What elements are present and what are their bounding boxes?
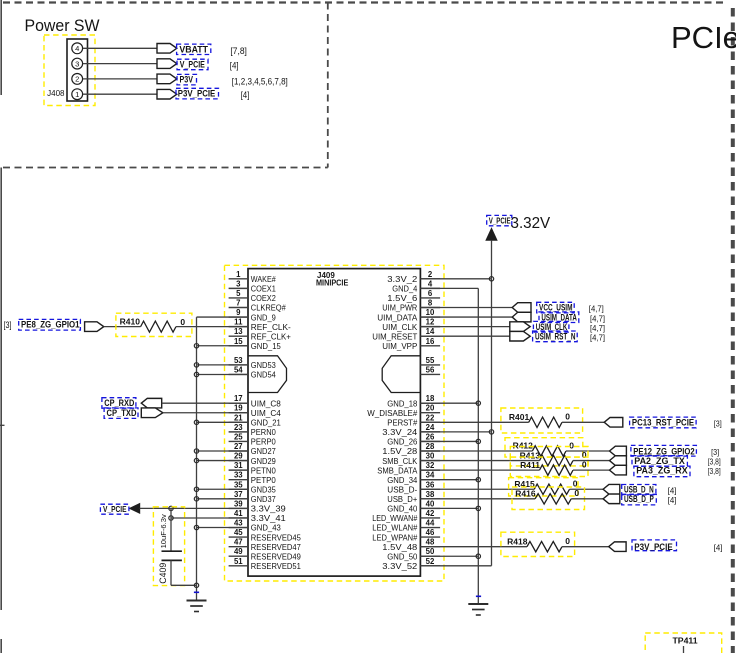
svg-text:UIM_DATA: UIM_DATA (377, 312, 417, 322)
junction GND_26 / right GND bus (476, 439, 480, 443)
title PCIe (671, 20, 736, 55)
wire GND_9 to left GND bus (197, 316, 249, 318)
pin 53 GND53 (229, 356, 276, 370)
pin 44 LED_WLAN# (372, 519, 440, 533)
svg-text:2: 2 (75, 75, 79, 84)
junction GND_34 / right GND bus (476, 478, 480, 482)
svg-text:VBATT: VBATT (179, 45, 208, 55)
sheet border top (3, 1, 727, 3)
svg-text:GND_34: GND_34 (387, 475, 417, 485)
svg-text:1.5V_28: 1.5V_28 (382, 446, 417, 456)
junction C409 / pin41 wire (169, 516, 173, 520)
svg-text:3.3V_39: 3.3V_39 (251, 504, 286, 514)
pin 12 UIM_CLK (382, 318, 440, 332)
title Power SW (25, 16, 100, 35)
wire PE8 flag to R410 (104, 326, 141, 328)
svg-text:47: 47 (234, 538, 243, 547)
connector J408 pin 3 (72, 58, 83, 69)
pin 9 GND_9 (229, 308, 276, 322)
pin 51 RESERVED51 (229, 557, 301, 571)
svg-text:PERP0: PERP0 (251, 437, 276, 447)
svg-text:18: 18 (426, 394, 435, 403)
wire GND37 to left GND bus (197, 498, 249, 500)
wire R416 to USB_D_P flag (571, 498, 603, 500)
net label V_PCIE (top) (487, 215, 512, 225)
svg-text:30: 30 (426, 452, 435, 461)
svg-text:53: 53 (234, 356, 243, 365)
svg-text:34: 34 (426, 471, 435, 480)
svg-text:TP411: TP411 (673, 636, 698, 646)
svg-text:GND_9: GND_9 (251, 312, 276, 322)
pin 34 GND_34 (387, 471, 440, 485)
svg-text:PA3_ZG_RX: PA3_ZG_RX (636, 466, 688, 476)
pin 31 PETN0 (229, 461, 276, 475)
svg-text:3.3V_24: 3.3V_24 (382, 427, 417, 437)
svg-text:[4,7]: [4,7] (589, 304, 604, 314)
net flag PE12_ZG_GPIO2 [3] (610, 445, 720, 457)
svg-text:[7,8]: [7,8] (230, 46, 247, 56)
svg-text:56: 56 (426, 365, 435, 374)
svg-text:[3,8]: [3,8] (708, 466, 721, 476)
wire J408 to VBATT flag (83, 47, 157, 49)
svg-text:[4]: [4] (241, 90, 250, 100)
pin 39 3.3V_39 (229, 499, 286, 513)
pin 8 UIM_PWR (382, 299, 440, 313)
junction 3.3V_2 / bus (489, 277, 493, 281)
wire R412 to PE12_ZG_GPIO2 flag (566, 450, 610, 452)
svg-text:43: 43 (234, 519, 243, 528)
pin 55 (420, 356, 440, 365)
svg-text:6: 6 (428, 289, 433, 298)
svg-text:[3]: [3] (714, 418, 722, 428)
pin 2 3.3V_2 (387, 270, 440, 284)
svg-text:REF_CLK-: REF_CLK- (251, 322, 291, 332)
svg-text:27: 27 (234, 442, 243, 451)
svg-text:1.5V_48: 1.5V_48 (382, 542, 417, 552)
svg-text:1.5V_6: 1.5V_6 (387, 293, 417, 303)
svg-text:44: 44 (426, 519, 435, 528)
svg-text:PETP0: PETP0 (251, 475, 276, 485)
pin 23 PERN0 (229, 423, 276, 437)
ground (left) (187, 592, 207, 611)
svg-text:USB_D_P: USB_D_P (624, 494, 654, 504)
wire 3.3V_24 to bus (420, 431, 491, 433)
net flag VBATT [7,8] (157, 44, 247, 57)
svg-text:UIM_C4: UIM_C4 (251, 408, 281, 418)
svg-text:3.3V_41: 3.3V_41 (251, 513, 286, 523)
pin 56 (420, 365, 440, 374)
svg-text:P3V: P3V (180, 75, 194, 85)
svg-text:[3]: [3] (711, 447, 719, 457)
svg-text:RESERVED45: RESERVED45 (251, 532, 301, 542)
pin 41 3.3V_41 (229, 509, 286, 523)
svg-text:GND_4: GND_4 (392, 284, 417, 294)
svg-text:PE8_ZG_GPIO1: PE8_ZG_GPIO1 (21, 320, 80, 330)
svg-text:25: 25 (234, 432, 243, 441)
svg-text:15: 15 (234, 337, 243, 346)
svg-text:[4,7]: [4,7] (590, 313, 605, 323)
svg-text:0: 0 (180, 317, 185, 327)
svg-text:[1,2,3,4,5,6,7,8]: [1,2,3,4,5,6,7,8] (232, 77, 288, 87)
junction C409 / pin39 wire (169, 506, 173, 510)
wire pin to R415 (420, 488, 534, 490)
svg-text:CP_RXD: CP_RXD (104, 398, 134, 408)
svg-text:V_PCIE: V_PCIE (489, 217, 511, 226)
svg-text:19: 19 (234, 404, 243, 413)
svg-text:51: 51 (234, 557, 243, 566)
wire GND53 to left GND bus (197, 364, 249, 366)
svg-text:USIM_RST_N: USIM_RST_N (535, 332, 576, 342)
svg-text:Power SW: Power SW (25, 16, 100, 35)
net flag P3V_PCIE [4] (157, 88, 249, 100)
svg-text:COEX1: COEX1 (251, 284, 276, 294)
pin 26 GND_26 (387, 432, 440, 446)
svg-text:R401: R401 (509, 412, 530, 422)
svg-text:12: 12 (426, 318, 435, 327)
svg-text:R413: R413 (520, 450, 541, 460)
svg-text:5: 5 (236, 289, 241, 298)
pin 40 GND_40 (387, 499, 440, 513)
svg-text:17: 17 (234, 394, 243, 403)
svg-text:REF_CLK+: REF_CLK+ (251, 331, 291, 341)
svg-text:W_DISABLE#: W_DISABLE# (367, 408, 417, 418)
svg-text:8: 8 (428, 299, 433, 308)
wire 3.3V bus vertical (491, 279, 493, 566)
svg-text:GND_43: GND_43 (251, 523, 281, 533)
svg-text:R412: R412 (513, 441, 534, 451)
svg-text:9: 9 (236, 308, 241, 317)
wire GND_40 to right GND bus (420, 507, 478, 509)
net flag CP_TXD (104, 408, 163, 419)
junction GND37 / left GND bus (194, 497, 198, 501)
svg-text:0: 0 (565, 412, 570, 422)
svg-text:[4]: [4] (714, 543, 723, 553)
svg-text:4: 4 (428, 279, 433, 288)
pin 17 UIM_C8 (229, 394, 281, 408)
net flag P3V [1,2,3,4,5,6,7,8] (157, 74, 288, 87)
junction C409 wire / left GND bus (194, 583, 198, 587)
svg-text:RESERVED51: RESERVED51 (251, 561, 301, 571)
net flag USIM_RST_N [4,7] (510, 331, 605, 342)
pin 47 RESERVED47 (229, 538, 301, 552)
svg-text:PA2_ZG_TX: PA2_ZG_TX (634, 456, 685, 466)
svg-text:[4]: [4] (668, 495, 677, 505)
wire GND_34 to right GND bus (420, 479, 478, 481)
svg-text:3: 3 (75, 59, 79, 68)
svg-text:LED_WLAN#: LED_WLAN# (372, 523, 417, 533)
pin 5 COEX2 (229, 289, 276, 303)
testpoint TP411 (645, 633, 722, 653)
wire GND_26 to right GND bus (420, 440, 478, 442)
wire GND_50 to right GND bus (420, 555, 478, 557)
net flag PA2_ZG_TX [3,8] (610, 456, 721, 467)
svg-text:GND_40: GND_40 (387, 504, 417, 514)
pin 50 GND_50 (387, 547, 440, 561)
resistor R401 0 (501, 408, 583, 433)
pin 22 PERST# (387, 413, 440, 427)
pin 32 SMB_DATA (377, 461, 440, 475)
svg-text:0: 0 (582, 450, 587, 460)
svg-text:20: 20 (426, 404, 435, 413)
wire R415 to USB_D_N flag (570, 488, 604, 490)
svg-text:GND37: GND37 (251, 494, 276, 504)
junction GND_21 / left GND bus (194, 420, 198, 424)
pin 10 UIM_DATA (377, 308, 440, 322)
wire UIM pin to USIM_DATA flag (420, 316, 512, 318)
svg-text:36: 36 (426, 480, 435, 489)
wire GND_18 to right GND bus (420, 402, 478, 404)
svg-text:V_PCIE: V_PCIE (180, 60, 205, 70)
svg-text:55: 55 (426, 356, 435, 365)
connector J408 pin 1 (72, 89, 83, 100)
svg-text:USB_D_N: USB_D_N (624, 485, 654, 495)
wire 3.3V_41 pin 41 to C409 branch (171, 517, 248, 519)
off-page wire tick (0, 424, 5, 426)
pin 6 1.5V_6 (387, 289, 440, 303)
wire J408 to P3V flag (83, 78, 157, 80)
pin 48 1.5V_48 (382, 538, 440, 552)
connector J409 highlight box (225, 265, 445, 581)
wire R401 to PC13_RST_PCIE flag (562, 421, 604, 423)
svg-text:GND_26: GND_26 (387, 437, 417, 447)
svg-text:PC13_RST_PCIE: PC13_RST_PCIE (632, 418, 694, 428)
svg-text:SMB_CLK: SMB_CLK (382, 456, 417, 466)
svg-text:4: 4 (75, 44, 79, 53)
svg-text:RESERVED47: RESERVED47 (251, 542, 301, 552)
svg-text:14: 14 (426, 327, 435, 336)
svg-text:45: 45 (234, 528, 243, 537)
wire V_PCIE to 3.3V_39 pin 39 (140, 507, 248, 509)
wire left GND bus vertical (196, 317, 198, 600)
svg-text:[4]: [4] (230, 61, 239, 71)
net flag PE8_ZG_GPIO1 (19, 319, 104, 331)
junction GND27 / left GND bus (194, 449, 198, 453)
svg-text:10: 10 (426, 308, 435, 317)
pin 11 REF_CLK- (229, 318, 291, 332)
net flag USB_D_P [4] (603, 494, 676, 505)
svg-text:GND_21: GND_21 (251, 418, 281, 428)
wire UIM pin to USIM_RST_N flag (420, 335, 509, 337)
wire R413 to PA2_ZG_TX flag (573, 460, 610, 462)
svg-text:1: 1 (236, 270, 241, 279)
svg-text:GND53: GND53 (251, 360, 276, 370)
svg-text:LED_WWAN#: LED_WWAN# (372, 513, 417, 523)
wire C409 to left GND bus (171, 584, 197, 586)
svg-text:3.3V_2: 3.3V_2 (387, 274, 417, 284)
wire J408 to P3V_PCIE flag (83, 93, 157, 95)
svg-text:MINIPCIE: MINIPCIE (316, 278, 349, 287)
svg-text:V_PCIE: V_PCIE (103, 505, 127, 514)
svg-text:P3V_PCIE: P3V_PCIE (178, 89, 216, 99)
svg-text:3: 3 (236, 279, 241, 288)
pin 30 SMB_CLK (382, 452, 440, 466)
pin 1 WAKE# (229, 270, 276, 284)
wire GND_21 to left GND bus (197, 421, 249, 423)
pin 43 GND_43 (229, 519, 281, 533)
junction GND54 / left GND bus (194, 372, 198, 376)
svg-text:41: 41 (234, 509, 243, 518)
wire pin to R416 (420, 498, 535, 500)
pin 37 GND37 (229, 490, 276, 504)
svg-text:[4]: [4] (668, 485, 677, 495)
svg-text:16: 16 (426, 337, 435, 346)
svg-text:1: 1 (75, 90, 79, 99)
svg-text:52: 52 (426, 557, 435, 566)
svg-text:GND27: GND27 (251, 446, 276, 456)
resistor R412 0 (505, 438, 583, 457)
junction GND53 / left GND bus (194, 363, 198, 367)
pin 18 GND_18 (387, 394, 440, 408)
wire CP_RXD to UIM_C8 pin 17 (162, 402, 248, 404)
pin 14 UIM_RESET (372, 327, 440, 341)
svg-text:GND54: GND54 (251, 370, 276, 380)
svg-text:GND_18: GND_18 (387, 398, 417, 408)
pin 4 GND_4 (392, 279, 440, 293)
svg-text:24: 24 (426, 423, 435, 432)
pin 29 GND29 (229, 452, 276, 466)
connector J408 pin 2 (72, 74, 83, 85)
svg-text:0: 0 (569, 440, 574, 450)
svg-text:0: 0 (574, 488, 579, 498)
pin 19 UIM_C4 (229, 404, 281, 418)
pin 20 W_DISABLE# (367, 404, 440, 418)
wire UIM pin to VCC_USIM flag (420, 307, 512, 309)
svg-text:WAKE#: WAKE# (251, 274, 276, 284)
svg-text:GND29: GND29 (251, 456, 276, 466)
wire UIM pin to USIM_CLK flag (420, 326, 509, 328)
pin 13 REF_CLK+ (229, 327, 291, 341)
resistor R418 0 (501, 532, 575, 556)
resistor R415 0 (509, 478, 578, 496)
pin 45 RESERVED45 (229, 528, 301, 542)
svg-text:R411: R411 (520, 460, 540, 470)
net flag VCC_USIM [4,7] (512, 302, 604, 313)
svg-text:C409: C409 (158, 563, 168, 584)
svg-text:46: 46 (426, 528, 435, 537)
svg-text:PETN0: PETN0 (251, 465, 276, 475)
pin 35 GND35 (229, 480, 276, 494)
svg-text:UIM_RESET: UIM_RESET (372, 331, 418, 341)
svg-text:13: 13 (234, 327, 243, 336)
pin 21 GND_21 (229, 413, 281, 427)
junction GND35 / left GND bus (194, 487, 198, 491)
resistor R413 0 (510, 447, 588, 466)
pin 38 USB_D+ (387, 490, 440, 504)
junction GND29 / left GND bus (194, 458, 198, 462)
svg-text:LED_WPAN#: LED_WPAN# (372, 532, 417, 542)
svg-text:29: 29 (234, 452, 243, 461)
svg-text:R418: R418 (507, 536, 528, 546)
svg-text:PERN0: PERN0 (251, 427, 276, 437)
svg-text:10uF-6.3v: 10uF-6.3v (159, 514, 168, 548)
wire 3.3V_2 to bus (420, 278, 491, 280)
pin 46 LED_WPAN# (372, 528, 440, 542)
wire GND27 to left GND bus (197, 450, 249, 452)
svg-text:R410: R410 (120, 316, 141, 326)
pin 7 CLKREQ# (229, 299, 286, 313)
svg-text:48: 48 (426, 538, 435, 547)
svg-text:PCIe: PCIe (671, 20, 736, 55)
svg-text:3.3V_52: 3.3V_52 (382, 561, 417, 571)
svg-text:UIM_CLK: UIM_CLK (382, 322, 417, 332)
svg-text:3.32V: 3.32V (511, 215, 551, 232)
power flag V_PCIE (left arrow) (100, 504, 139, 515)
svg-text:11: 11 (234, 318, 243, 327)
pin 25 PERP0 (229, 432, 276, 446)
junction GND_50 / right GND bus (476, 554, 480, 558)
svg-text:GND_50: GND_50 (387, 551, 417, 561)
connector key notch left (248, 356, 287, 393)
resistor R416 0 (512, 487, 585, 510)
net flag PA3_ZG_RX [3,8] (610, 465, 721, 476)
svg-text:UIM_VPP: UIM_VPP (382, 341, 417, 351)
wire R410 to REF_CLK- pin 11 (176, 326, 248, 328)
svg-text:35: 35 (234, 480, 243, 489)
wire pin to R411 (420, 469, 539, 471)
svg-text:[3,8]: [3,8] (708, 457, 721, 467)
svg-text:32: 32 (426, 461, 435, 470)
connector J409 MINIPCIE body (248, 269, 420, 576)
pin 49 RESERVED49 (229, 547, 301, 561)
capacitor C409 10uF-6.3v (153, 507, 184, 586)
pin 24 3.3V_24 (382, 423, 440, 437)
svg-text:0: 0 (565, 536, 570, 546)
wire R418 to P3V_PCIE flag (562, 546, 609, 548)
wire GND_4 to right GND bus (420, 288, 478, 604)
svg-text:49: 49 (234, 547, 243, 556)
svg-text:CP_TXD: CP_TXD (107, 408, 137, 418)
net flag P3V_PCIE [4] (609, 540, 723, 553)
net flag USB_D_N [4] (603, 484, 676, 495)
svg-text:COEX2: COEX2 (251, 293, 276, 303)
sheet border left (0, 0, 2, 653)
svg-text:28: 28 (426, 442, 435, 451)
junction GND_40 / right GND bus (476, 506, 480, 510)
voltage annotation 3.32V (511, 215, 551, 232)
pin 54 GND54 (229, 365, 276, 379)
connector J408 pin 4 (72, 43, 83, 54)
svg-text:SMB_DATA: SMB_DATA (377, 465, 417, 475)
svg-text:[4,7]: [4,7] (590, 332, 605, 342)
power symbol V_PCIE 3.32V arrow (486, 229, 497, 279)
wire GND35 to left GND bus (197, 488, 249, 490)
connector J408 highlight box (44, 35, 95, 106)
svg-text:50: 50 (426, 547, 435, 556)
svg-text:[4,7]: [4,7] (590, 323, 605, 333)
wire CP_TXD to UIM_C4 pin 19 (163, 412, 248, 414)
svg-text:38: 38 (426, 490, 435, 499)
wire J408 to V_PCIE flag (83, 63, 157, 65)
svg-text:CLKREQ#: CLKREQ# (251, 303, 286, 313)
svg-text:RESERVED49: RESERVED49 (251, 551, 301, 561)
wire pin to R413 (420, 460, 539, 462)
svg-text:26: 26 (426, 432, 435, 441)
svg-text:42: 42 (426, 509, 435, 518)
wire 3.3V_52 to bus corner (420, 565, 491, 567)
svg-text:UIM_PWR: UIM_PWR (382, 303, 417, 313)
pin 27 GND27 (229, 442, 276, 456)
svg-text:22: 22 (426, 413, 435, 422)
net flag USIM_DATA [4,7] (512, 312, 605, 323)
svg-text:23: 23 (234, 423, 243, 432)
svg-text:31: 31 (234, 461, 243, 470)
svg-text:UIM_C8: UIM_C8 (251, 398, 281, 408)
pin 3 COEX1 (229, 279, 276, 293)
pin 42 LED_WWAN# (372, 509, 440, 523)
svg-text:[3]: [3] (4, 320, 12, 330)
ground (right) (468, 596, 488, 615)
sheet border right (731, 8, 735, 653)
